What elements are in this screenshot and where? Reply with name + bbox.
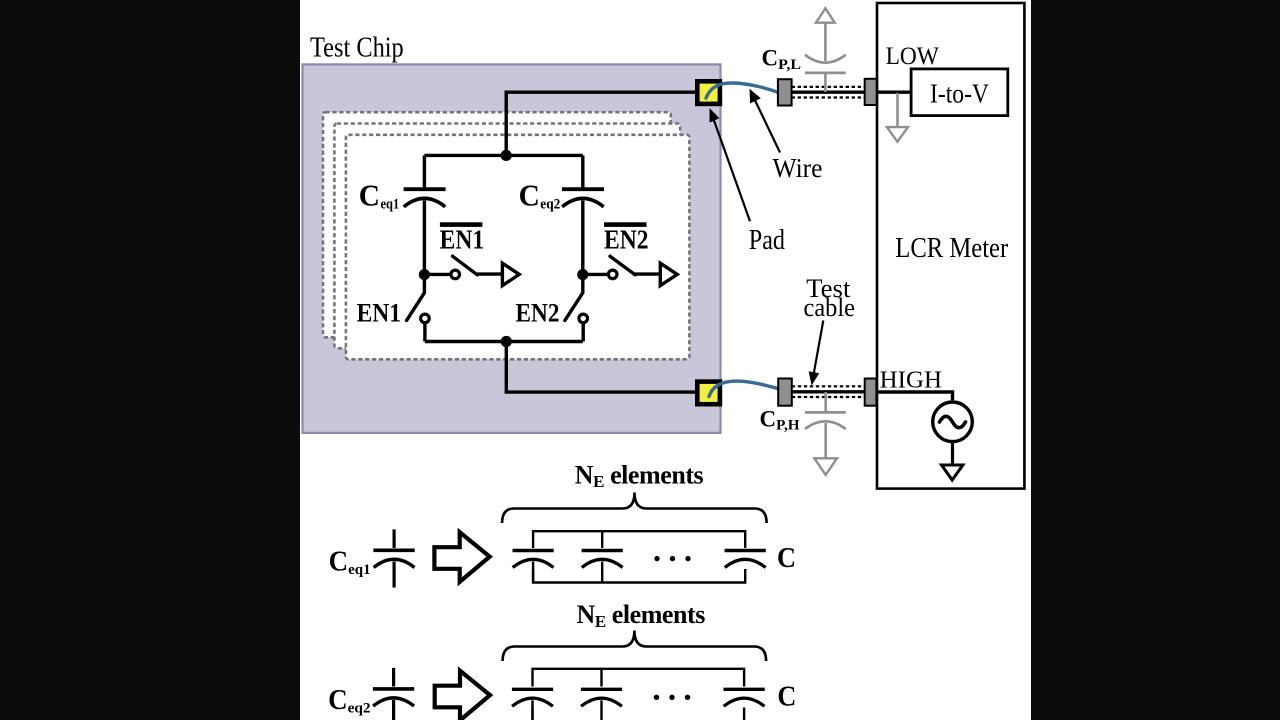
svg-text:cable: cable xyxy=(804,293,855,322)
capacitor Ceq1 single row1 xyxy=(373,529,414,587)
parallel cap box row2 xyxy=(533,669,745,720)
label EN2bar overline xyxy=(604,222,647,227)
cap row1 branch2 xyxy=(582,531,623,582)
svg-text:Wire: Wire xyxy=(773,153,823,183)
bond wire top (blue) xyxy=(706,83,785,98)
cap row1 branch last xyxy=(725,551,766,568)
svg-text:EN1: EN1 xyxy=(357,299,402,328)
test cable top shield dashes xyxy=(792,86,865,88)
annotation arrow Test cable xyxy=(814,321,823,373)
connector block top left xyxy=(778,79,792,105)
svg-text:C: C xyxy=(359,178,380,213)
cap row2 branch last xyxy=(724,689,765,706)
svg-text:HIGH: HIGH xyxy=(880,366,942,393)
cap row2 branch2 xyxy=(581,669,622,720)
test cable bottom center conductor xyxy=(792,390,865,393)
label EN1bar overline xyxy=(440,222,483,227)
annotation arrow Wire xyxy=(755,101,780,153)
I-to-V box xyxy=(911,69,1008,116)
svg-text:eq1: eq1 xyxy=(348,562,371,578)
switch blade EN1 xyxy=(407,294,424,321)
svg-text:C: C xyxy=(777,543,796,574)
switch blade EN2 xyxy=(565,294,582,321)
contact circle EN2bar switch xyxy=(608,270,617,279)
annotation arrow Pad xyxy=(714,120,750,221)
wire left branch upper xyxy=(423,155,426,187)
ground arrow at source xyxy=(942,465,963,480)
big open arrow row2 xyxy=(435,671,490,720)
wire right branch upper xyxy=(581,155,584,187)
big open arrow row1 xyxy=(434,532,489,582)
test cable top center conductor xyxy=(792,90,865,93)
wire top rail xyxy=(424,154,582,157)
capacitor Ceq1 xyxy=(404,189,446,274)
svg-text:LCR Meter: LCR Meter xyxy=(895,233,1008,264)
svg-text:C: C xyxy=(762,46,779,71)
AC source xyxy=(933,402,973,442)
capacitor Ceq2 xyxy=(562,189,604,274)
svg-text:EN2: EN2 xyxy=(516,299,560,328)
connector block bottom right xyxy=(865,379,877,406)
node switch left upper xyxy=(419,269,430,280)
arrow down CPH xyxy=(814,458,837,475)
svg-text:C: C xyxy=(328,684,348,716)
wire to buffer EN2bar xyxy=(635,272,660,275)
wire top feed to pad xyxy=(506,92,695,155)
svg-text:Test Chip: Test Chip xyxy=(310,32,404,63)
wire bottom rail xyxy=(425,340,583,343)
capacitor CPL (gray parasitic) xyxy=(805,23,846,92)
LCR meter box xyxy=(877,3,1024,489)
capacitor Ceq2 single row2 xyxy=(373,668,414,720)
svg-text:I-to-V: I-to-V xyxy=(930,78,989,108)
dashed die outline middle sheet xyxy=(334,124,680,349)
ground arrow gray at LOW xyxy=(896,93,899,127)
brace row2 xyxy=(503,631,766,662)
svg-text:C: C xyxy=(777,681,796,712)
cap row2 branch1 xyxy=(512,689,553,720)
svg-text:LOW: LOW xyxy=(886,41,940,70)
connector block top right xyxy=(865,79,877,105)
wire to buffer EN1bar xyxy=(477,272,502,275)
contact circle EN1 switch xyxy=(421,314,430,323)
wire right branch lower xyxy=(581,275,584,294)
parallel cap box row1 xyxy=(533,531,745,582)
svg-text:P,L: P,L xyxy=(778,57,801,73)
arrow up CPL xyxy=(816,8,835,22)
svg-text:EN1: EN1 xyxy=(440,225,485,255)
svg-text:P,H: P,H xyxy=(776,418,800,434)
node bottom junction xyxy=(501,336,512,347)
wire stub to contact right xyxy=(583,273,607,276)
test chip lavender substrate xyxy=(303,64,721,433)
wire contact to bottom rail left xyxy=(423,323,426,342)
cap row1 branch1 xyxy=(513,551,554,583)
wire stub to contact xyxy=(424,273,449,276)
contact circle EN1bar switch xyxy=(451,270,460,279)
wire source to ground xyxy=(951,441,954,465)
wire LOW to I-to-V xyxy=(877,90,911,93)
pad top xyxy=(697,81,720,104)
svg-text:eq2: eq2 xyxy=(540,197,560,213)
svg-text:eq2: eq2 xyxy=(348,701,371,717)
node top junction xyxy=(501,150,512,161)
wire HIGH to source xyxy=(876,392,952,400)
svg-text:C: C xyxy=(760,406,777,431)
capacitor CPH (gray parasitic) xyxy=(805,392,846,458)
svg-text:C: C xyxy=(329,546,349,578)
buffer triangle EN1bar xyxy=(502,263,519,285)
buffer triangle EN2bar xyxy=(660,263,677,285)
dashed die outline back sheet xyxy=(323,112,671,337)
dashed die outline front sheet xyxy=(346,135,690,359)
wire bottom feed to pad xyxy=(506,342,695,393)
svg-text:eq1: eq1 xyxy=(381,197,400,213)
pad bottom xyxy=(697,382,720,405)
switch blade EN2bar xyxy=(610,256,635,275)
connector block bottom left xyxy=(778,379,792,406)
right black bar xyxy=(1031,0,1280,720)
switch blade EN1bar xyxy=(453,256,478,275)
svg-text:C: C xyxy=(519,178,540,213)
wire left branch lower xyxy=(423,275,426,294)
svg-text:Pad: Pad xyxy=(749,224,786,256)
bond wire bottom (blue) xyxy=(709,381,789,396)
dots row2 xyxy=(654,695,659,700)
left black bar xyxy=(0,0,300,720)
dots row1 xyxy=(654,556,659,561)
node switch right upper xyxy=(577,269,588,280)
wire contact to bottom rail right xyxy=(582,323,585,342)
test cable bottom shield dashes xyxy=(792,385,865,387)
brace row1 xyxy=(502,493,766,524)
contact circle EN2 switch xyxy=(579,314,588,323)
svg-text:EN2: EN2 xyxy=(604,225,649,255)
